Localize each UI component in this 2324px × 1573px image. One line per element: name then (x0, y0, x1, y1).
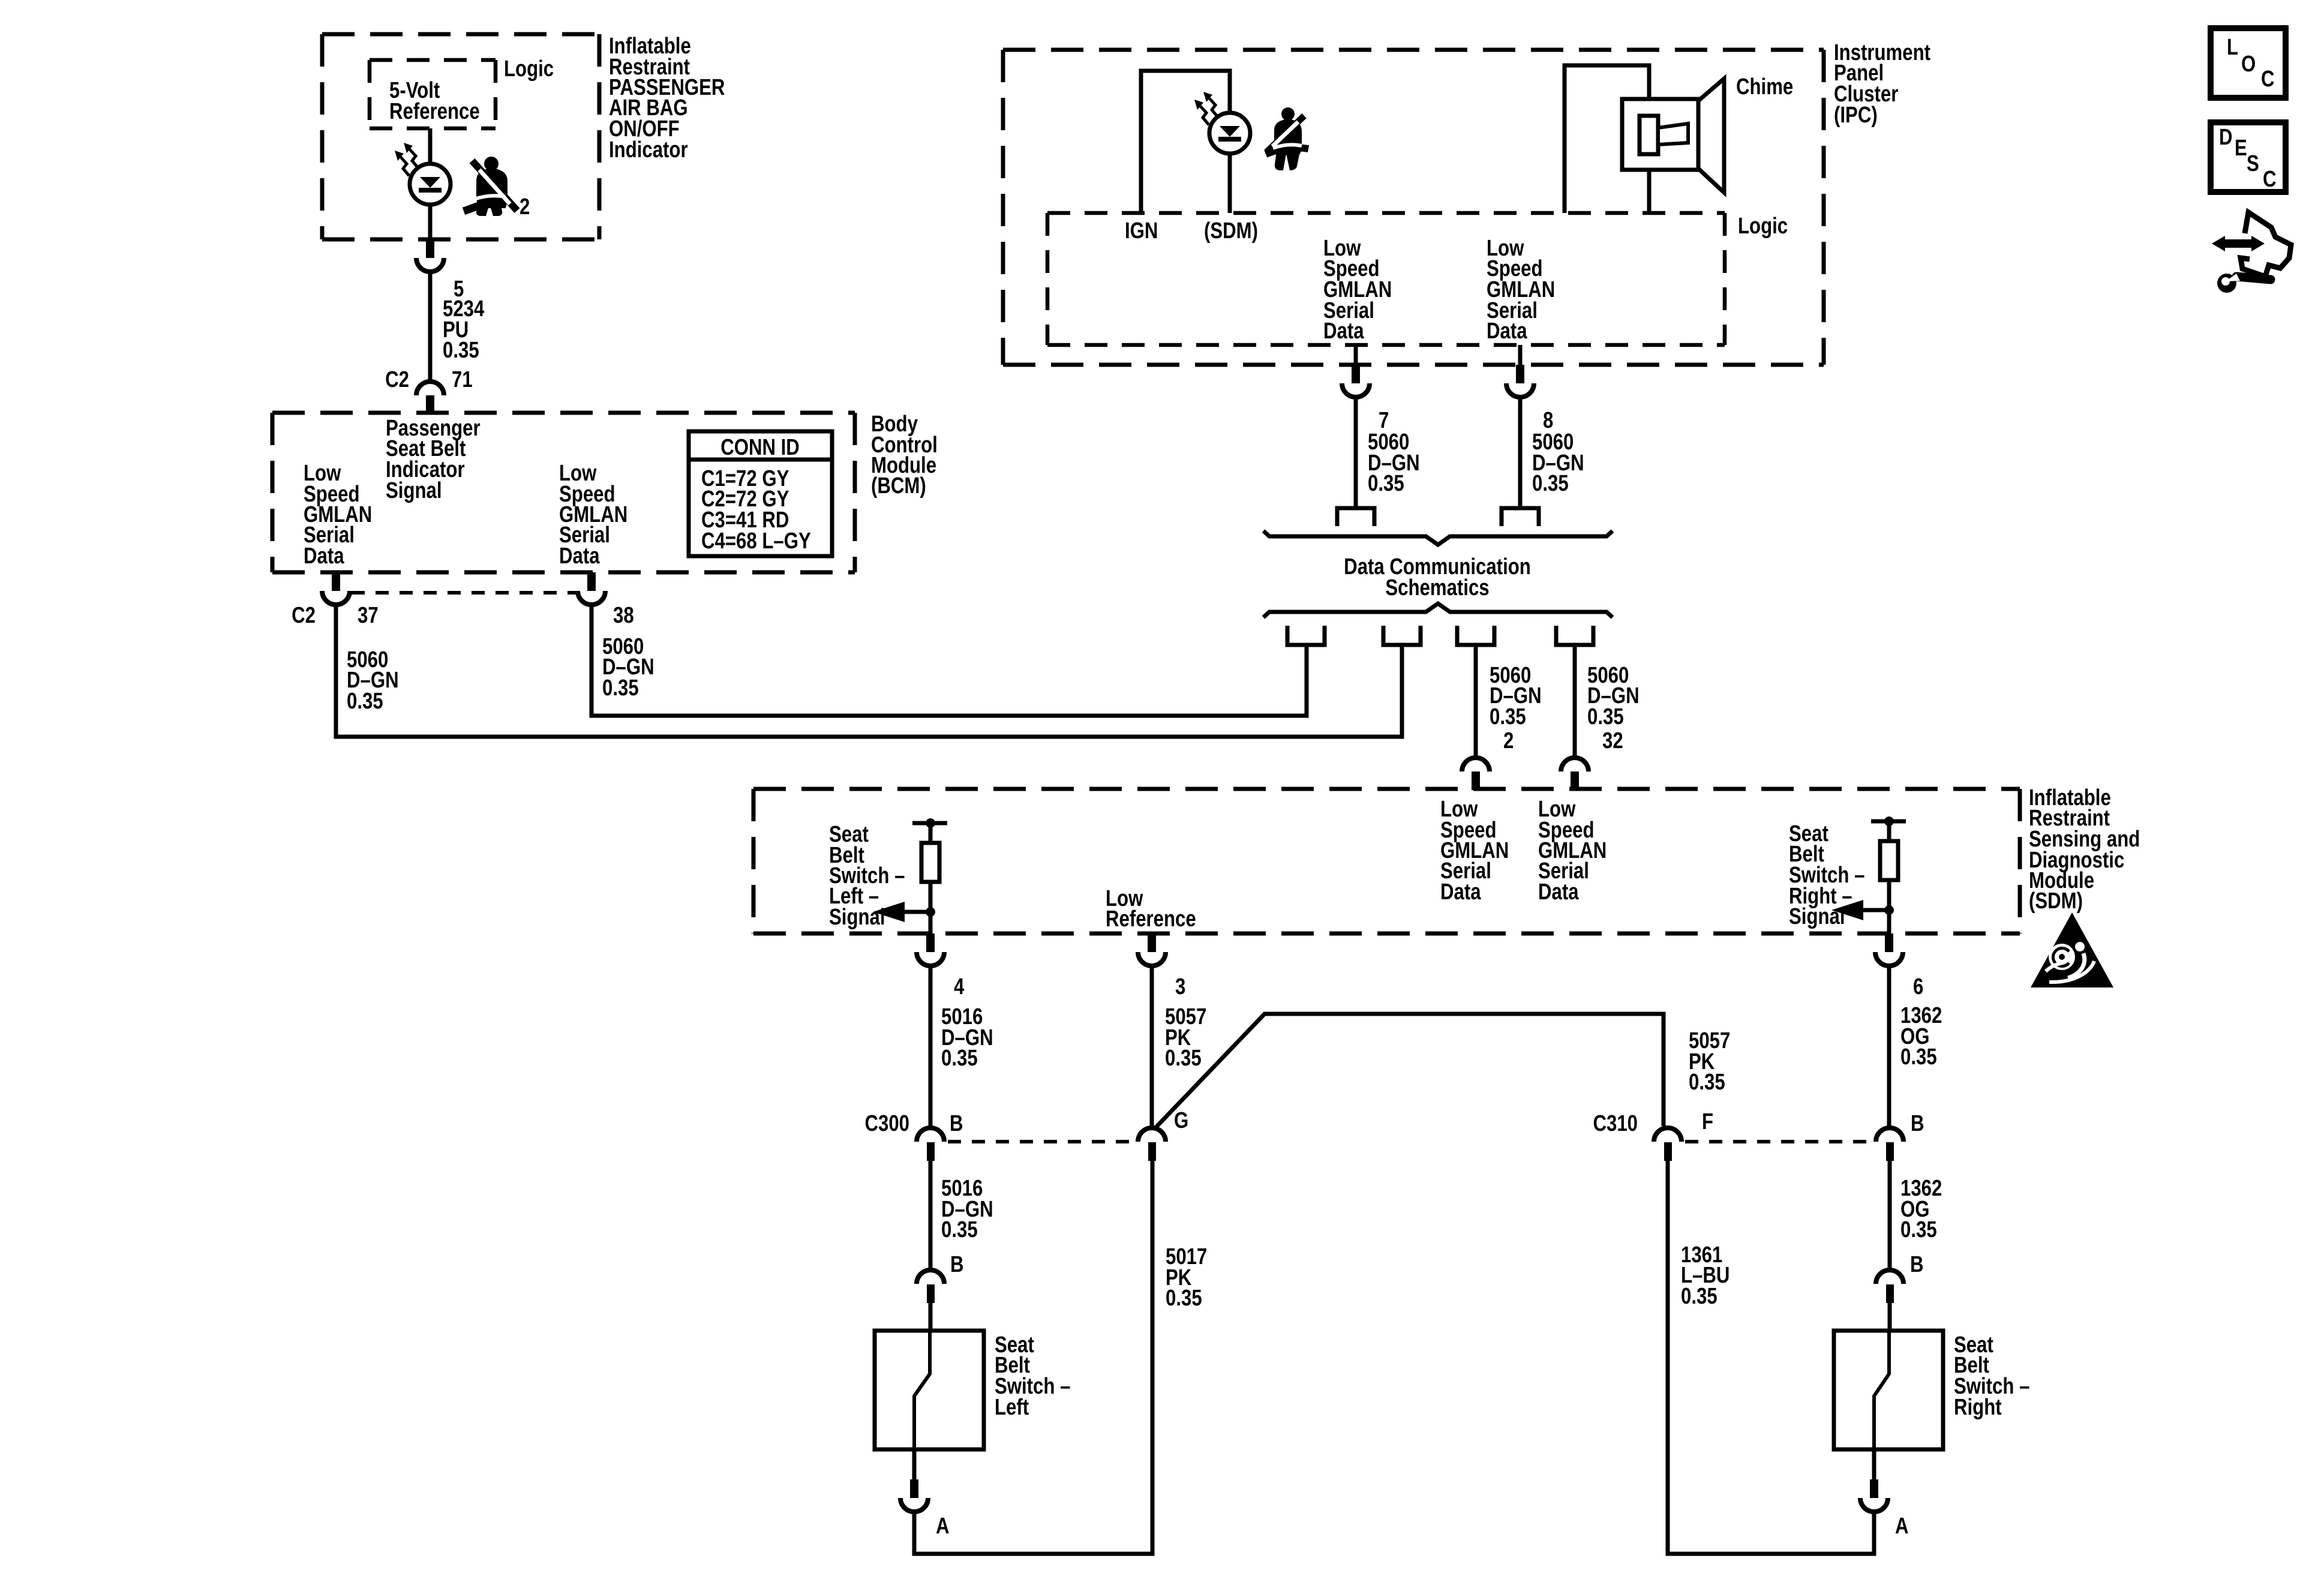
wire 5060 D-GN 0.35 from IPC pin 7 (1354, 397, 1358, 508)
wire 5060 D-GN 0.35 from IPC pin 8 (1518, 397, 1523, 508)
wire from LED to box edge (428, 205, 433, 239)
svg-text:6: 6 (1913, 974, 1923, 999)
wire 1362 OG 0.35 (below C310) (1888, 1161, 1892, 1270)
module box: Body Control Module (BCM) (272, 413, 855, 572)
connector C310 cavity F (1654, 1128, 1682, 1142)
svg-text:C300: C300 (865, 1111, 909, 1136)
wire 5060 D-GN 0.35 from pin 38 to data bus (591, 605, 1307, 716)
svg-text:Reference: Reference (389, 99, 480, 124)
logic sub-box IPC (1047, 213, 1725, 345)
svg-text:C2: C2 (292, 603, 316, 628)
bottom brace (1263, 604, 1613, 617)
switch box: Seat Belt Switch - Left (875, 1331, 984, 1449)
svg-text:(SDM): (SDM) (1204, 218, 1258, 244)
svg-text:B: B (1910, 1252, 1924, 1277)
wire to switch right (1888, 1303, 1892, 1331)
bus terminal to BCM 38 (1287, 626, 1325, 645)
connector pin 38 at BCM (587, 572, 596, 591)
wire IGN feed (1141, 71, 1230, 213)
wire 1361 L-BU 0.35 from C310 F (1668, 1161, 1874, 1554)
svg-text:0.35: 0.35 (1587, 704, 1624, 730)
wire 5234 PU 0.35 (428, 272, 433, 382)
logic sub-box: 5-Volt Reference (370, 60, 496, 128)
svg-text:L: L (2227, 35, 2238, 60)
junction dot (1884, 816, 1894, 826)
svg-text:C310: C310 (1593, 1111, 1638, 1136)
bus terminal (pin 8 wire) (1502, 508, 1539, 526)
connector pin 3 at SDM (Low Reference) (1148, 933, 1156, 952)
wire 1362 OG 0.35 (1887, 966, 1891, 1128)
internal rail tap (right) (1871, 819, 1906, 824)
svg-text:0.35: 0.35 (1532, 471, 1569, 496)
svg-text:Logic: Logic (1738, 214, 1788, 239)
chime speaker icon (1622, 79, 1724, 193)
connector dashed link C300 (948, 1140, 1134, 1143)
wire to pull-up resistor (929, 823, 933, 843)
resistor (seat belt switch left pull-up) (921, 843, 939, 882)
connector C300 cavity G (1138, 1128, 1166, 1142)
svg-text:CONN ID: CONN ID (720, 435, 800, 460)
svg-text:0.35: 0.35 (1900, 1044, 1937, 1070)
connector pin 6 at SDM (1885, 933, 1893, 952)
svg-text:B: B (950, 1252, 964, 1277)
wire below switch left (912, 1449, 917, 1479)
svg-text:A: A (1895, 1514, 1909, 1539)
svg-text:Left: Left (995, 1395, 1029, 1420)
svg-text:32: 32 (1602, 728, 1623, 754)
signal arrow (to SDM logic) (903, 910, 930, 914)
wire to switch left (929, 1303, 933, 1331)
junction dot (926, 818, 935, 828)
bus terminal to SDM 2 (1457, 626, 1494, 645)
bus terminal (pin 7 wire) (1337, 508, 1374, 526)
svg-text:Reference: Reference (1106, 906, 1196, 932)
svg-text:0.35: 0.35 (1166, 1286, 1202, 1311)
svg-text:3: 3 (1175, 974, 1185, 999)
svg-text:G: G (1174, 1108, 1188, 1133)
connector pin 2 at SDM (1462, 758, 1490, 772)
svg-text:IGN: IGN (1125, 218, 1158, 244)
svg-text:0.35: 0.35 (347, 689, 383, 714)
svg-text:0.35: 0.35 (1165, 1046, 1202, 1071)
connector dashed link C310 (1685, 1140, 1872, 1143)
connector pin 37 C2 at BCM (332, 572, 340, 591)
svg-text:Data: Data (1323, 319, 1364, 344)
connector cavity B at switch left (917, 1270, 944, 1284)
svg-text:C: C (2263, 167, 2277, 192)
LED emission arrows (410, 149, 418, 168)
svg-text:Signal: Signal (829, 905, 885, 930)
connector pin 32 at SDM (1561, 758, 1589, 772)
svg-text:0.35: 0.35 (941, 1217, 978, 1242)
LED emission arrows (1209, 98, 1218, 117)
switch blade left (914, 1331, 930, 1449)
wire 5017 PK 0.35 return to C300 G (914, 1161, 1152, 1554)
LOC legend box (2211, 28, 2286, 98)
svg-text:(BCM): (BCM) (871, 473, 926, 499)
junction dot (signal tap) (1884, 905, 1894, 915)
svg-text:C: C (2261, 67, 2275, 92)
indicator LED (passenger air bag on/off) (410, 164, 451, 205)
svg-text:F: F (1702, 1109, 1713, 1134)
connector pin 7 at IPC (1352, 365, 1360, 383)
connector pin 8 at IPC (1516, 365, 1524, 383)
svg-text:38: 38 (613, 603, 634, 628)
svg-text:0.35: 0.35 (1368, 471, 1404, 496)
svg-text:2: 2 (1503, 728, 1514, 754)
internal rail tap (left) (912, 821, 947, 825)
svg-text:B: B (1911, 1111, 1924, 1136)
svg-text:0.35: 0.35 (1900, 1217, 1937, 1242)
connector cavity B at switch right (1876, 1270, 1903, 1284)
junction dot (signal tap) (926, 907, 935, 917)
wire from logic to IPC pin 8 (1518, 345, 1523, 365)
wire to pull-up resistor (1887, 821, 1891, 841)
connector pin 71 C2 at BCM (416, 382, 444, 395)
svg-text:0.35: 0.35 (1490, 704, 1526, 730)
resistor (seat belt switch right pull-up) (1880, 841, 1898, 880)
service icon: double arrow, hand and wrench (2212, 212, 2291, 293)
wire from logic to IPC pin 7 (1354, 345, 1358, 365)
svg-text:0.35: 0.35 (443, 338, 479, 363)
svg-text:Signal: Signal (386, 478, 442, 503)
connector C300 cavity B (917, 1128, 944, 1142)
module box: Inflatable Restraint PASSENGER AIR BAG ON/OFF Indicator (322, 34, 599, 239)
CONN ID table (689, 431, 832, 556)
svg-text:D: D (2219, 125, 2233, 150)
SIR warning triangle icon (2031, 912, 2113, 987)
svg-text:Data: Data (559, 544, 600, 569)
chime wire loop (1565, 65, 1649, 213)
connector pin 5 at indicator (426, 239, 434, 258)
svg-text:A: A (936, 1514, 950, 1539)
svg-text:Data: Data (1487, 319, 1527, 344)
connector C310 cavity B (1876, 1128, 1903, 1142)
svg-text:Schematics: Schematics (1385, 575, 1489, 601)
svg-text:Chime: Chime (1736, 74, 1793, 100)
wire 5060 D-GN 0.35 to SDM pin 2 (1474, 645, 1478, 758)
wire 5016 D-GN 0.35 (below C300) (929, 1161, 933, 1270)
svg-text:0.35: 0.35 (1681, 1284, 1718, 1309)
top brace (1263, 531, 1613, 545)
wire from 5-Volt Reference to indicator LED (428, 128, 433, 164)
svg-text:0.35: 0.35 (941, 1046, 978, 1071)
svg-text:(IPC): (IPC) (1834, 103, 1878, 128)
wire below switch right (1872, 1449, 1876, 1479)
connector dashed jumper 37-38 (352, 591, 576, 595)
svg-text:Indicator: Indicator (609, 137, 688, 163)
svg-text:4: 4 (954, 974, 964, 999)
svg-text:B: B (950, 1111, 963, 1136)
svg-text:(SDM): (SDM) (2029, 888, 2083, 914)
switch box: Seat Belt Switch - Right (1834, 1331, 1943, 1449)
wire 5057 PK 0.35 (1150, 966, 1154, 1128)
bus terminal to BCM 37 (1383, 626, 1421, 645)
svg-text:Right: Right (1954, 1395, 2002, 1420)
wire 5060 D-GN 0.35 to SDM pin 32 (1573, 645, 1577, 758)
svg-text:S: S (2247, 151, 2259, 176)
svg-text:2: 2 (520, 194, 530, 220)
connector cavity A at switch left (910, 1479, 918, 1498)
svg-text:71: 71 (452, 367, 473, 392)
svg-text:0.35: 0.35 (602, 676, 639, 701)
svg-text:E: E (2235, 136, 2247, 161)
svg-text:Signal: Signal (1789, 904, 1845, 929)
seat belt person icon (IPC) (1266, 107, 1308, 170)
svg-text:Data: Data (1440, 879, 1481, 905)
wire from resistor to pin 6 (1887, 880, 1891, 933)
connector pin 4 at SDM (926, 933, 935, 952)
connector cavity A at switch right (1870, 1479, 1878, 1498)
DESC legend box (2211, 122, 2286, 192)
signal arrow (to SDM logic) (1862, 908, 1889, 912)
wire from resistor to pin 4 (929, 882, 933, 933)
svg-text:Logic: Logic (504, 56, 554, 82)
svg-text:0.35: 0.35 (1689, 1070, 1725, 1095)
wire from LED to logic box (1228, 154, 1232, 213)
module box: Inflatable Restraint Sensing and Diagnostic Module (SDM) (753, 789, 2020, 933)
svg-text:O: O (2241, 52, 2256, 77)
wire 5057 PK 0.35 jumper to C310 (1154, 1014, 1664, 1129)
svg-text:C2: C2 (385, 367, 409, 392)
svg-text:Data: Data (1538, 879, 1579, 905)
seat belt person icon (464, 157, 517, 216)
svg-text:Data: Data (304, 544, 344, 569)
module box: Instrument Panel Cluster (IPC) (1003, 50, 1824, 365)
bus terminal to SDM 32 (1556, 626, 1593, 645)
svg-text:37: 37 (358, 603, 379, 628)
wire 5060 D-GN 0.35 from pin 37 to data bus (336, 605, 1402, 737)
switch blade right (1874, 1331, 1889, 1449)
wire 5016 D-GN 0.35 (929, 966, 933, 1128)
svg-text:C4=68 L–GY: C4=68 L–GY (701, 529, 811, 554)
seat belt indicator LED in IPC (1209, 113, 1250, 154)
